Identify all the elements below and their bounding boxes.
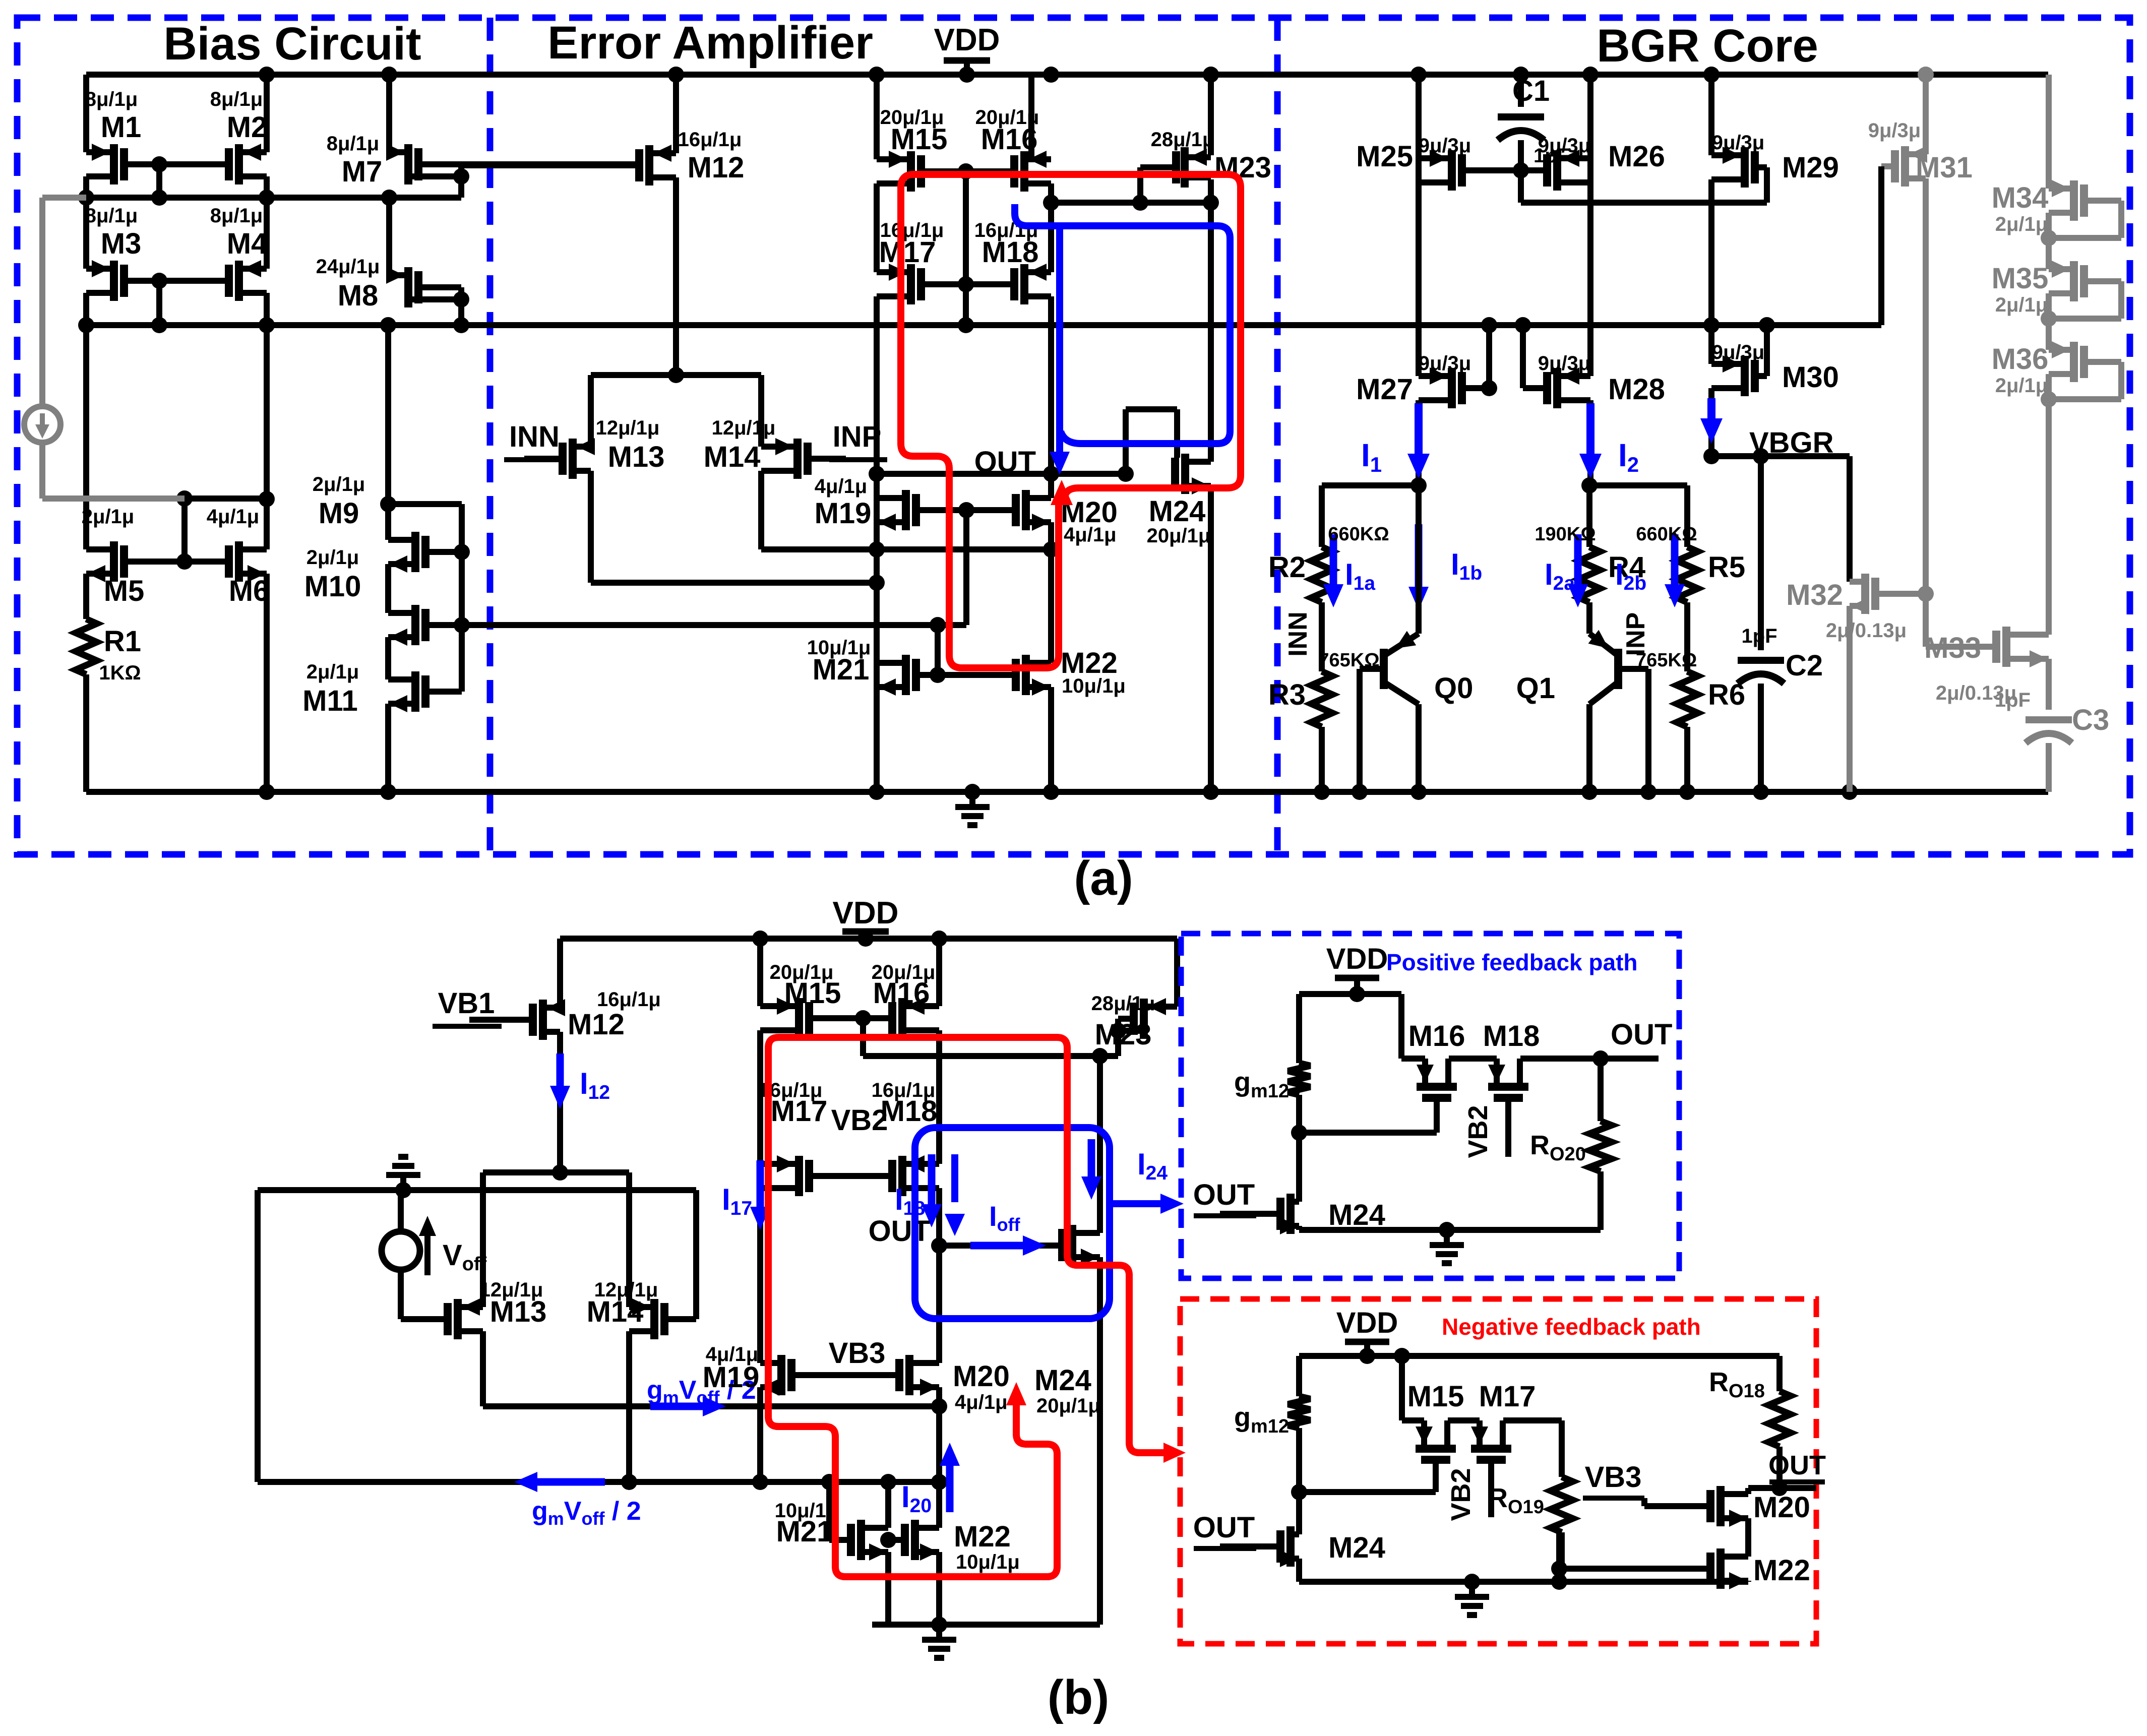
svg-text:INN: INN (509, 420, 560, 453)
svg-text:M12: M12 (688, 151, 745, 184)
svg-text:OUT: OUT (869, 1215, 930, 1248)
svg-text:10μ/1μ: 10μ/1μ (956, 1551, 1020, 1573)
svg-text:M14: M14 (704, 441, 761, 473)
svg-text:M17: M17 (771, 1095, 828, 1128)
svg-text:OUT: OUT (1611, 1018, 1672, 1051)
svg-text:INN: INN (1283, 611, 1313, 657)
svg-text:M19: M19 (703, 1361, 760, 1394)
svg-text:M15: M15 (891, 123, 948, 156)
svg-text:M17: M17 (1479, 1380, 1536, 1413)
svg-text:M30: M30 (1782, 361, 1839, 394)
svg-text:M24: M24 (1328, 1199, 1385, 1231)
svg-text:Error Amplifier: Error Amplifier (547, 17, 873, 69)
svg-text:VB3: VB3 (1585, 1461, 1642, 1494)
svg-text:M13: M13 (490, 1295, 547, 1328)
svg-text:2μ/0.13μ: 2μ/0.13μ (1826, 619, 1907, 642)
svg-text:24μ/1μ: 24μ/1μ (316, 256, 380, 278)
svg-text:12μ/1μ: 12μ/1μ (712, 417, 776, 439)
svg-text:9μ/3μ: 9μ/3μ (1712, 341, 1765, 363)
svg-text:8μ/1μ: 8μ/1μ (210, 205, 263, 227)
svg-text:C2: C2 (1786, 649, 1823, 682)
svg-text:Positive feedback path: Positive feedback path (1386, 949, 1638, 975)
svg-text:10μ/1μ: 10μ/1μ (1062, 675, 1126, 697)
svg-text:2μ/1μ: 2μ/1μ (1995, 375, 2048, 397)
svg-text:C3: C3 (2072, 704, 2109, 736)
svg-text:2μ/1μ: 2μ/1μ (1995, 294, 2048, 316)
svg-text:16μ/1μ: 16μ/1μ (597, 988, 661, 1011)
svg-text:M8: M8 (338, 279, 379, 312)
svg-text:M19: M19 (815, 497, 872, 530)
svg-text:M15: M15 (1407, 1380, 1464, 1413)
svg-text:VB2: VB2 (1463, 1105, 1493, 1158)
svg-text:8μ/1μ: 8μ/1μ (327, 133, 380, 155)
svg-text:9μ/3μ: 9μ/3μ (1419, 352, 1471, 375)
svg-text:R2: R2 (1268, 551, 1306, 584)
svg-text:20μ/1μ: 20μ/1μ (1036, 1395, 1100, 1417)
svg-text:VDD: VDD (934, 23, 1000, 57)
svg-text:VB1: VB1 (438, 987, 495, 1020)
svg-text:M14: M14 (587, 1295, 644, 1328)
svg-text:M34: M34 (1992, 181, 2049, 214)
svg-text:M25: M25 (1356, 140, 1413, 173)
svg-text:4μ/1μ: 4μ/1μ (815, 475, 868, 498)
svg-text:VDD: VDD (833, 896, 899, 931)
svg-text:M9: M9 (319, 497, 359, 530)
svg-text:9μ/3μ: 9μ/3μ (1868, 119, 1921, 142)
svg-text:M11: M11 (302, 685, 358, 717)
svg-text:M24: M24 (1034, 1364, 1091, 1397)
svg-text:2μ/1μ: 2μ/1μ (306, 661, 359, 683)
svg-text:M20: M20 (953, 1360, 1010, 1393)
svg-text:Q1: Q1 (1516, 672, 1555, 705)
svg-text:M22: M22 (1753, 1554, 1810, 1587)
svg-text:M36: M36 (1992, 343, 2049, 376)
svg-text:8μ/1μ: 8μ/1μ (210, 88, 263, 110)
svg-text:VB2: VB2 (1446, 1468, 1476, 1521)
svg-text:28μ/1μ: 28μ/1μ (1091, 993, 1155, 1015)
svg-text:M7: M7 (342, 155, 383, 188)
svg-text:M27: M27 (1356, 373, 1413, 406)
svg-text:765KΩ: 765KΩ (1636, 650, 1697, 671)
svg-text:190KΩ: 190KΩ (1535, 524, 1596, 545)
svg-text:Bias Circuit: Bias Circuit (163, 18, 421, 70)
svg-text:M13: M13 (608, 441, 665, 473)
svg-text:R1: R1 (104, 625, 141, 658)
svg-text:M6: M6 (229, 575, 270, 607)
svg-text:M35: M35 (1992, 262, 2049, 295)
svg-text:M16: M16 (873, 977, 930, 1010)
svg-text:M33: M33 (1924, 632, 1981, 664)
svg-text:R3: R3 (1268, 678, 1306, 711)
svg-text:VB3: VB3 (829, 1337, 886, 1370)
svg-text:M18: M18 (982, 236, 1039, 269)
svg-text:9μ/3μ: 9μ/3μ (1419, 135, 1471, 157)
svg-text:(b): (b) (1048, 1670, 1110, 1724)
svg-text:M16: M16 (981, 123, 1038, 156)
svg-text:660KΩ: 660KΩ (1328, 524, 1389, 545)
svg-text:VDD: VDD (1336, 1307, 1398, 1339)
svg-text:M1: M1 (101, 111, 142, 144)
svg-text:4μ/1μ: 4μ/1μ (1064, 524, 1117, 546)
svg-text:M18: M18 (1483, 1020, 1540, 1052)
svg-text:9μ/3μ: 9μ/3μ (1712, 132, 1765, 154)
svg-text:OUT: OUT (1768, 1450, 1826, 1480)
svg-text:1KΩ: 1KΩ (99, 662, 141, 684)
svg-text:2μ/1μ: 2μ/1μ (313, 473, 365, 495)
svg-text:BGR Core: BGR Core (1597, 20, 1818, 72)
svg-text:12μ/1μ: 12μ/1μ (596, 417, 660, 439)
svg-text:28μ/1μ: 28μ/1μ (1151, 129, 1215, 151)
svg-text:1pF: 1pF (1741, 625, 1777, 647)
svg-text:M21: M21 (776, 1515, 833, 1548)
svg-text:2μ/1μ: 2μ/1μ (306, 546, 359, 569)
svg-text:M10: M10 (304, 570, 361, 603)
svg-text:Negative feedback path: Negative feedback path (1442, 1314, 1701, 1340)
svg-text:M2: M2 (227, 111, 268, 144)
svg-text:M28: M28 (1608, 373, 1665, 406)
svg-text:OUT: OUT (1193, 1511, 1255, 1544)
svg-text:9μ/3μ: 9μ/3μ (1538, 352, 1591, 375)
svg-text:M21: M21 (813, 653, 870, 686)
svg-text:M5: M5 (104, 575, 145, 607)
svg-text:2μ/1μ: 2μ/1μ (82, 506, 135, 528)
svg-text:M4: M4 (227, 227, 268, 260)
svg-text:M12: M12 (568, 1008, 625, 1041)
svg-text:M15: M15 (784, 977, 841, 1010)
svg-text:660KΩ: 660KΩ (1636, 524, 1697, 545)
svg-text:1pF: 1pF (1995, 689, 2031, 711)
svg-text:M24: M24 (1328, 1531, 1385, 1564)
svg-text:Q0: Q0 (1434, 672, 1473, 705)
svg-text:20μ/1μ: 20μ/1μ (1147, 525, 1211, 547)
svg-text:4μ/1μ: 4μ/1μ (207, 506, 260, 528)
svg-text:8μ/1μ: 8μ/1μ (85, 205, 138, 227)
svg-text:M23: M23 (1214, 151, 1271, 184)
svg-text:M29: M29 (1782, 151, 1839, 184)
svg-text:16μ/1μ: 16μ/1μ (678, 129, 742, 151)
svg-text:M17: M17 (879, 236, 936, 269)
svg-text:M16: M16 (1408, 1020, 1465, 1052)
svg-text:VDD: VDD (1326, 943, 1388, 975)
svg-text:9μ/3μ: 9μ/3μ (1538, 135, 1591, 157)
svg-text:M22: M22 (954, 1520, 1011, 1553)
svg-text:(a): (a) (1074, 851, 1133, 905)
svg-text:VB2: VB2 (831, 1104, 888, 1137)
svg-text:4μ/1μ: 4μ/1μ (955, 1391, 1008, 1413)
svg-text:8μ/1μ: 8μ/1μ (85, 88, 138, 110)
svg-text:R5: R5 (1708, 551, 1745, 584)
svg-text:M32: M32 (1786, 579, 1843, 611)
svg-text:2μ/1μ: 2μ/1μ (1995, 213, 2048, 235)
svg-text:M20: M20 (1753, 1491, 1810, 1524)
svg-text:C1: C1 (1512, 75, 1550, 107)
svg-text:OUT: OUT (1193, 1179, 1255, 1211)
svg-text:OUT: OUT (974, 446, 1036, 478)
svg-text:M18: M18 (881, 1095, 938, 1128)
svg-text:M3: M3 (101, 227, 142, 260)
svg-text:M24: M24 (1149, 495, 1206, 528)
svg-text:M26: M26 (1608, 140, 1665, 173)
